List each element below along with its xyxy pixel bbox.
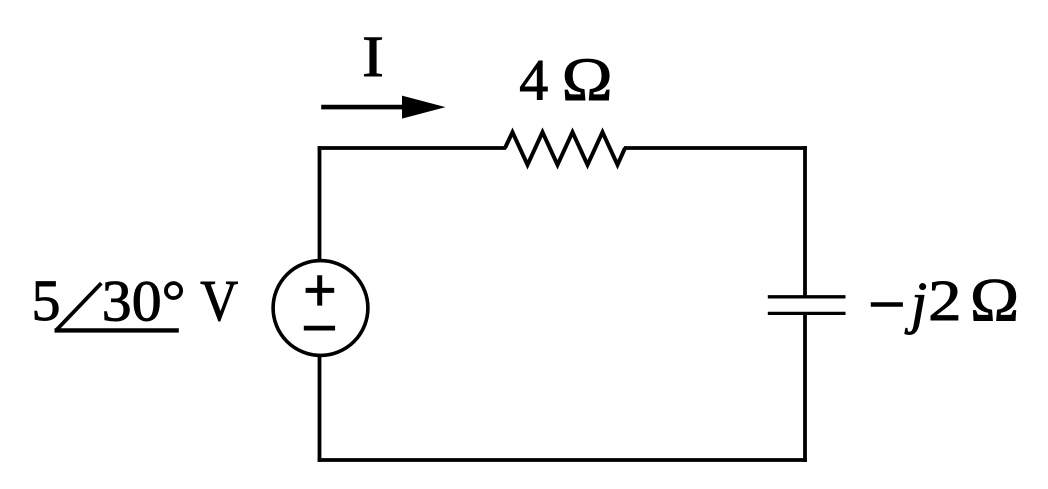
wire top-left horizontal (318, 146, 506, 150)
svg-text:2: 2 (928, 268, 961, 333)
resistor 4-ohm zigzag (505, 132, 625, 165)
svg-text:5: 5 (32, 268, 61, 333)
wire left vertical lower (bottom wire up to source) (318, 356, 322, 462)
current arrow I head (402, 96, 446, 119)
svg-text:Ω: Ω (970, 267, 1019, 334)
wire top-right horizontal (624, 146, 807, 150)
wire right vertical lower (capacitor bottom plate to bottom wire) (803, 313, 807, 462)
capacitor top plate (768, 295, 846, 298)
wire left vertical upper (source up to top wire) (318, 146, 322, 260)
svg-text:4: 4 (519, 48, 548, 113)
svg-text:I: I (362, 24, 384, 89)
label minus (of -j2) (871, 302, 903, 307)
svg-text:V: V (200, 268, 238, 333)
voltage source V1 circle (273, 261, 368, 356)
angle symbol diagonal (56, 283, 101, 330)
svg-text:Ω: Ω (562, 47, 613, 114)
angle symbol underline (55, 328, 179, 332)
capacitor bottom plate (768, 312, 846, 315)
svg-text:30°: 30° (102, 268, 186, 333)
voltage source minus sign (304, 326, 335, 331)
wire right vertical upper (to capacitor top plate) (803, 146, 807, 297)
wire bottom horizontal (318, 458, 807, 462)
voltage source plus sign (306, 275, 335, 305)
current arrow I shaft (321, 105, 404, 110)
